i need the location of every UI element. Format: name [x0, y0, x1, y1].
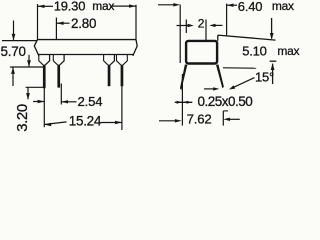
svg-text:15°: 15°: [255, 70, 274, 85]
pin shoulder 4: [117, 55, 121, 65]
pin 3: [108, 65, 111, 87]
7.62 right extension line: [222, 111, 224, 126]
5.70 top reference line: [2, 40, 38, 42]
lead thickness crossbar with opposing arrows: [175, 101, 193, 103]
6.40 right arrow: [227, 4, 234, 7]
svg-text:max: max: [277, 44, 299, 58]
3.20 down-arrow: [27, 87, 29, 99]
15.24 dim line right with arrow: [101, 122, 122, 124]
left lead (splayed): [180, 64, 187, 90]
7.62 right ext tick: [223, 110, 228, 112]
package body left end: [34, 40, 39, 56]
package body top: [38, 39, 137, 41]
15.24 dim line left with arrow: [44, 122, 66, 125]
svg-text:max: max: [272, 0, 294, 13]
5.70 lower down-arrow: [28, 55, 30, 67]
package body right end: [133, 40, 137, 56]
pin shoulder 1: [39, 55, 43, 65]
extension line right of 19.30 dim: [135, 5, 137, 40]
7.62 dim line left with arrow: [159, 120, 176, 122]
19.30 dim line right with arrow: [110, 5, 136, 7]
2 dim left tick: [185, 20, 187, 34]
0.25x0.50 leader arrow: [204, 88, 214, 90]
7.62 left extension line: [181, 74, 183, 126]
svg-text:5.70: 5.70: [1, 44, 26, 59]
svg-text:0.25x0.50: 0.25x0.50: [198, 94, 253, 109]
svg-text:5.10: 5.10: [242, 44, 267, 59]
2.54 left arrow: [33, 101, 44, 103]
svg-text:19.30: 19.30: [54, 0, 86, 14]
2 dim right arrow: [215, 24, 223, 26]
extension line left of 19.30 dim: [37, 4, 39, 40]
5.10 bottom stub line: [270, 60, 277, 62]
pin 4: [121, 65, 124, 87]
2 dim right tick: [205, 20, 207, 41]
svg-text:2: 2: [198, 17, 205, 31]
extension line for 2.80 dim: [55, 18, 57, 40]
3.20 up-arrow: [12, 68, 14, 87]
pin shoulder 3: [104, 55, 108, 65]
6.40 left extension line: [179, 5, 181, 63]
5.10 down-arrow: [271, 18, 273, 39]
2.54 right arrow: [61, 101, 76, 103]
5.10 sloped top reference line: [218, 35, 276, 40]
pin 1 extension line: [43, 88, 45, 127]
pin 4 extension line: [121, 86, 123, 130]
3.20 elbow line: [26, 86, 44, 88]
2.54 right extension line: [60, 84, 62, 105]
seating plane line: [10, 66, 44, 68]
svg-text:2.80: 2.80: [71, 16, 96, 31]
pin 2: [57, 65, 60, 88]
5.70 upper down-arrow: [13, 21, 15, 41]
2 dim left arrow: [177, 25, 189, 27]
pin 1: [43, 65, 46, 89]
svg-text:2.54: 2.54: [78, 94, 103, 109]
seating line (right view): [223, 67, 256, 69]
right lead (splayed): [216, 64, 224, 88]
19.30 dim line left with arrow: [38, 5, 54, 7]
svg-text:6.40: 6.40: [238, 0, 263, 14]
package body bottom: [38, 54, 134, 56]
6.40 dim line with arrow: [158, 4, 177, 6]
6.40 right extension line: [226, 4, 228, 36]
7.62 dim line right with arrow: [229, 118, 240, 120]
5.10 up-arrow: [272, 64, 274, 84]
pin shoulder 2: [53, 55, 57, 65]
15 deg leader: [232, 78, 255, 89]
svg-text:7.62: 7.62: [187, 112, 212, 127]
body (end view): [186, 41, 217, 64]
riser from body top to reference line: [217, 35, 219, 41]
svg-text:15.24: 15.24: [69, 113, 102, 128]
2.80 arrow: [57, 22, 70, 24]
svg-text:3.20: 3.20: [14, 104, 31, 132]
